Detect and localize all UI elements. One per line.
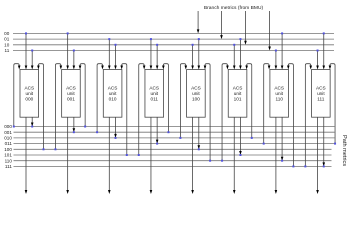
wire: branch metric input arrow to line 10 <box>244 11 247 45</box>
wire: unit 000 decision output arrow <box>25 117 28 194</box>
svg-text:000: 000 <box>25 96 33 101</box>
svg-text:100: 100 <box>4 147 12 152</box>
wire: unit 000 branch metric drop from line 00 <box>25 33 28 69</box>
wire: unit 111 branch metric drop from line 00 <box>322 33 325 69</box>
svg-text:unit: unit <box>67 91 75 96</box>
svg-text:Branch metrics (from BMU): Branch metrics (from BMU) <box>204 5 264 11</box>
svg-text:ACS: ACS <box>233 86 243 91</box>
svg-text:110: 110 <box>275 96 283 101</box>
node: junction unit 111 drop on line 11 <box>317 50 319 52</box>
node: junction unit 100 output on line 100 <box>198 148 200 150</box>
svg-text:ACS: ACS <box>191 86 201 91</box>
ACS unit 110 box U6 <box>270 70 289 118</box>
node: junction unit 010 drop on line 01 <box>108 38 110 40</box>
wire: unit 011 branch metric drop from line 10 <box>156 45 159 70</box>
ACS unit 100 box U4 <box>187 70 206 118</box>
node: junction unit 000 drop on line 11 <box>31 50 33 52</box>
svg-text:ACS: ACS <box>316 86 326 91</box>
node: junction unit 110 output on line 110 <box>281 160 283 162</box>
svg-text:11: 11 <box>5 48 10 53</box>
svg-text:ACS: ACS <box>274 86 284 91</box>
node: junction unit 101 output on line 101 <box>239 154 241 156</box>
wire: unit 111 decision output arrow <box>316 117 319 194</box>
wire: unit 001 decision output arrow <box>66 117 69 194</box>
wire: path-metric bus line 000 <box>14 126 335 128</box>
node: junction unit 101 drop on line 01 <box>239 38 241 40</box>
ACS unit 000 box U0 <box>20 70 39 118</box>
wire: unit 110 decision output arrow <box>275 117 278 194</box>
svg-text:ACS: ACS <box>108 86 118 91</box>
wire: unit 011 right feedback loop from line 001 <box>162 64 168 133</box>
svg-text:100: 100 <box>192 96 200 101</box>
node: junction unit 111 right loop on line 011 <box>334 143 336 145</box>
svg-text:ACS: ACS <box>24 86 34 91</box>
node: junction unit 100 drop on line 01 <box>198 38 200 40</box>
wire: unit 101 right feedback loop from line 010 <box>245 64 251 138</box>
wire: unit 101 branch metric drop from line 01 <box>239 39 242 69</box>
svg-text:111: 111 <box>317 96 325 101</box>
wire: unit 000 path metric output to line 000 <box>31 117 34 126</box>
svg-text:10: 10 <box>4 42 10 47</box>
svg-text:101: 101 <box>234 96 242 101</box>
svg-text:unit: unit <box>150 91 158 96</box>
node: junction unit 100 drop on line 10 <box>192 44 194 46</box>
node: junction unit 100 right loop on line 110 <box>209 160 211 162</box>
wire: path-metric bus line 110 <box>14 160 332 162</box>
wire: unit 011 path metric output to line 011 <box>156 117 159 143</box>
node: junction unit 101 drop on line 10 <box>233 44 235 46</box>
node: junction unit 010 output on line 010 <box>115 137 117 139</box>
ACS unit 001 box U1 <box>62 70 81 118</box>
node: junction unit 111 drop on line 00 <box>323 32 325 34</box>
node: junction unit 001 drop on line 11 <box>73 50 75 52</box>
node: junction unit 011 output on line 011 <box>156 143 158 145</box>
wire: unit 010 path metric output to line 010 <box>114 117 117 138</box>
wire: unit 100 left feedback loop from line 010 <box>180 64 187 138</box>
wire: unit 000 left feedback loop from line 000 <box>14 64 21 127</box>
node: junction unit 101 left loop on line 110 <box>221 160 223 162</box>
wire: path-metric bus line 100 <box>14 148 332 150</box>
wire: unit 100 branch metric drop from line 10 <box>191 45 194 70</box>
wire: unit 011 left feedback loop from line 101 <box>139 64 146 155</box>
node: junction unit 111 output on line 111 <box>323 165 325 167</box>
svg-text:unit: unit <box>26 91 34 96</box>
wire: unit 110 branch metric drop from line 00 <box>281 33 284 69</box>
node: junction unit 110 left loop on line 011 <box>263 143 265 145</box>
svg-text:011: 011 <box>151 96 159 101</box>
svg-text:001: 001 <box>67 96 75 101</box>
node: junction unit 000 output on line 000 <box>31 126 33 128</box>
node: junction unit 011 drop on line 10 <box>156 44 158 46</box>
svg-text:Path metrics: Path metrics <box>341 135 347 166</box>
svg-text:010: 010 <box>4 136 12 141</box>
wire: unit 010 decision output arrow <box>108 117 111 194</box>
wire: unit 101 decision output arrow <box>233 117 236 194</box>
wire: unit 110 left feedback loop from line 011 <box>264 64 271 144</box>
svg-text:ACS: ACS <box>149 86 159 91</box>
svg-text:001: 001 <box>4 130 12 135</box>
wire: unit 111 branch metric drop from line 11 <box>316 51 319 70</box>
wire: unit 011 branch metric drop from line 01 <box>150 39 153 69</box>
wire: branch-metric bus line 10 <box>13 44 334 46</box>
ACS unit 011 box U3 <box>145 70 164 118</box>
svg-text:unit: unit <box>234 91 242 96</box>
svg-text:101: 101 <box>4 153 12 158</box>
node: junction unit 111 left loop on line 111 <box>304 165 306 167</box>
wire: unit 100 path metric output to line 100 <box>198 117 201 149</box>
node: junction unit 000 drop on line 00 <box>25 32 27 34</box>
wire: unit 100 decision output arrow <box>191 117 194 194</box>
node: junction unit 010 right loop on line 101 <box>126 154 128 156</box>
wire: unit 101 branch metric drop from line 10 <box>233 45 236 70</box>
node: junction unit 101 right loop on line 010 <box>251 137 253 139</box>
node: junction unit 001 right loop on line 000 <box>84 126 86 128</box>
wire: unit 000 branch metric drop from line 11 <box>31 51 34 70</box>
node: junction unit 010 drop on line 10 <box>115 44 117 46</box>
svg-text:unit: unit <box>275 91 283 96</box>
node: junction unit 001 drop on line 00 <box>67 32 69 34</box>
wire: unit 010 branch metric drop from line 10 <box>114 45 117 70</box>
node: junction unit 100 left loop on line 010 <box>179 137 181 139</box>
wire: unit 110 right feedback loop from line 111 <box>287 64 293 167</box>
svg-text:unit: unit <box>192 91 200 96</box>
wire: unit 001 right feedback loop from line 000 <box>79 64 85 127</box>
wire: unit 101 left feedback loop from line 110 <box>222 64 229 161</box>
wire: path-metric bus line 111 <box>14 165 332 167</box>
wire: path-metric bus line 011 <box>14 143 336 145</box>
wire: branch-metric bus line 11 <box>13 50 334 52</box>
wire: branch metric input arrow to line 01 <box>220 11 223 39</box>
node: junction unit 110 drop on line 00 <box>281 32 283 34</box>
wire: unit 000 right feedback loop from line 100 <box>37 64 43 150</box>
node: junction unit 000 right loop on line 100 <box>43 148 45 150</box>
svg-text:00: 00 <box>4 31 10 36</box>
wire: branch metric input arrow to line 11 <box>268 11 271 51</box>
wire: unit 010 right feedback loop from line 101 <box>120 64 126 155</box>
wire: path-metric bus line 010 <box>14 137 335 139</box>
ACS unit 010 box U2 <box>103 70 122 118</box>
node: junction unit 011 right loop on line 001 <box>167 131 169 133</box>
node: junction unit 010 left loop on line 001 <box>96 131 98 133</box>
wire: path-metric bus line 101 <box>14 154 332 156</box>
svg-text:111: 111 <box>5 164 12 169</box>
svg-text:unit: unit <box>317 91 325 96</box>
wire: unit 111 path metric output to line 111 <box>322 117 325 166</box>
svg-text:110: 110 <box>5 158 13 163</box>
svg-text:010: 010 <box>109 96 117 101</box>
ACS unit 101 box U5 <box>228 70 247 118</box>
wire: branch-metric bus line 00 <box>13 32 334 34</box>
wire: unit 001 branch metric drop from line 00 <box>66 33 69 69</box>
wire: unit 010 left feedback loop from line 001 <box>97 64 104 133</box>
node: junction unit 110 right loop on line 111 <box>292 165 294 167</box>
svg-text:000: 000 <box>4 124 12 129</box>
wire: unit 011 decision output arrow <box>150 117 153 194</box>
wire: unit 010 branch metric drop from line 01 <box>108 39 111 69</box>
svg-text:011: 011 <box>5 141 13 146</box>
wire: unit 100 branch metric drop from line 01 <box>198 39 201 69</box>
svg-text:unit: unit <box>109 91 117 96</box>
node: junction unit 000 left loop on line 000 <box>13 126 15 128</box>
ACS unit 111 box U7 <box>312 70 331 118</box>
wire: unit 110 branch metric drop from line 11 <box>275 51 278 70</box>
wire: branch-metric bus line 01 <box>13 38 334 40</box>
node: junction unit 011 drop on line 01 <box>150 38 152 40</box>
wire: branch metric input arrow to line 00 <box>197 11 200 33</box>
wire: unit 001 branch metric drop from line 11 <box>73 51 76 70</box>
wire: unit 111 right feedback loop from line 011 <box>329 64 335 144</box>
wire: unit 001 path metric output to line 001 <box>73 117 76 132</box>
node: junction unit 001 left loop on line 100 <box>54 148 56 150</box>
wire: unit 100 right feedback loop from line 110 <box>204 64 210 161</box>
node: junction unit 001 output on line 001 <box>73 131 75 133</box>
wire: path-metric bus line 001 <box>14 131 335 133</box>
wire: unit 111 left feedback loop from line 111 <box>305 64 312 167</box>
node: junction unit 110 drop on line 11 <box>275 50 277 52</box>
node: junction unit 011 left loop on line 101 <box>138 154 140 156</box>
svg-text:ACS: ACS <box>66 86 76 91</box>
wire: unit 101 path metric output to line 101 <box>239 117 242 155</box>
wire: unit 110 path metric output to line 110 <box>281 117 284 161</box>
wire: unit 001 left feedback loop from line 100 <box>55 64 62 150</box>
svg-text:01: 01 <box>4 37 10 42</box>
